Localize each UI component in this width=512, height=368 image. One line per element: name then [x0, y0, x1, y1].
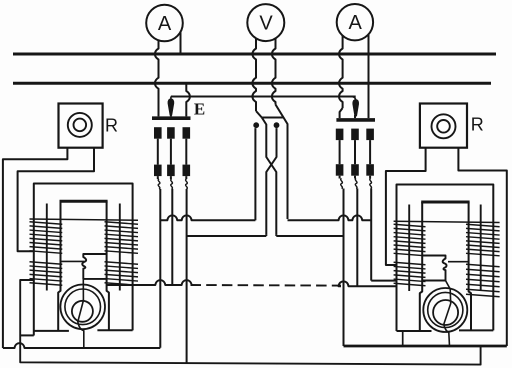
svg-text:A: A — [349, 12, 363, 34]
svg-text:V: V — [259, 13, 273, 35]
svg-text:A: A — [158, 13, 172, 35]
svg-text:E: E — [194, 100, 205, 119]
svg-text:R: R — [105, 116, 118, 136]
svg-text:R: R — [471, 114, 484, 134]
